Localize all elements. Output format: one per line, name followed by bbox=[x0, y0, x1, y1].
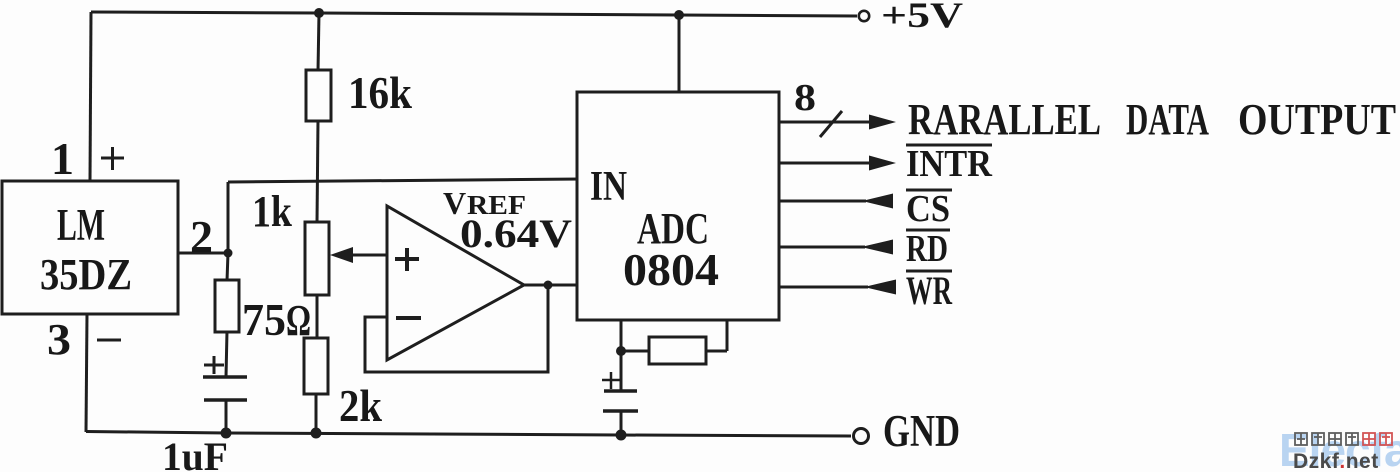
svg-text:1k: 1k bbox=[252, 187, 292, 236]
svg-text:1uF: 1uF bbox=[162, 434, 228, 472]
svg-text:WR: WR bbox=[906, 268, 953, 313]
svg-text:LM: LM bbox=[57, 200, 105, 250]
svg-text:0.64V: 0.64V bbox=[460, 211, 572, 256]
svg-text:OUTPUT: OUTPUT bbox=[1238, 95, 1396, 144]
svg-text:RD: RD bbox=[906, 228, 948, 270]
svg-text:INTR: INTR bbox=[906, 143, 992, 185]
svg-text:16k: 16k bbox=[348, 67, 412, 118]
svg-text:8: 8 bbox=[794, 77, 816, 119]
svg-text:Dzkf.net: Dzkf.net bbox=[1293, 450, 1379, 472]
svg-text:35DZ: 35DZ bbox=[40, 250, 132, 299]
svg-text:1: 1 bbox=[51, 133, 74, 184]
svg-text:+5V: +5V bbox=[881, 0, 963, 35]
svg-text:DATA: DATA bbox=[1126, 95, 1209, 144]
svg-text:GND: GND bbox=[883, 406, 960, 456]
svg-text:Ω: Ω bbox=[286, 296, 311, 345]
svg-text:CS: CS bbox=[906, 188, 950, 230]
svg-text:2: 2 bbox=[190, 211, 213, 262]
svg-text:IN: IN bbox=[590, 164, 627, 210]
svg-text:3: 3 bbox=[47, 315, 71, 364]
svg-text:RARALLEL: RARALLEL bbox=[908, 95, 1101, 144]
svg-text:0804: 0804 bbox=[623, 244, 719, 295]
svg-text:2k: 2k bbox=[339, 380, 382, 431]
svg-text:75: 75 bbox=[242, 294, 286, 345]
